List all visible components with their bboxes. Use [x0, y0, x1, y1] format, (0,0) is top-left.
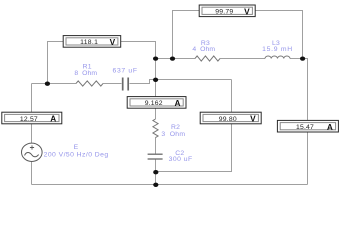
node 2 junction dot (C1 output)	[153, 78, 158, 82]
wire middle branch top to 9.162A meter	[155, 59, 157, 97]
svg-text:12.57: 12.57	[20, 116, 38, 123]
voltmeter 99.80 V	[200, 112, 261, 124]
wire 99.79V meter right lead	[255, 11, 303, 59]
wire C2 to bottom rail	[155, 159, 157, 185]
node top-left junction dot (118V right lead)	[153, 56, 158, 60]
svg-text:8 Ohm: 8 Ohm	[74, 70, 97, 77]
node right junction dot (after L3)	[300, 56, 305, 60]
svg-text:15.9 mH: 15.9 mH	[262, 46, 292, 53]
svg-text:V: V	[244, 7, 250, 17]
wire 118.1V meter left lead	[48, 42, 64, 84]
voltmeter 99.79 V	[199, 5, 255, 17]
voltmeter 118.1 V	[63, 36, 120, 48]
wire node A horizontal to R1	[32, 83, 77, 85]
inductor L3	[262, 40, 292, 59]
ammeter 9.162 A	[127, 97, 186, 109]
ammeter 12.57 A	[2, 112, 62, 124]
wire L3 to right node	[290, 58, 303, 60]
capacitor C1	[113, 67, 138, 90]
wire R2 to C2	[155, 138, 157, 154]
svg-text:4 Ohm: 4 Ohm	[192, 46, 215, 53]
svg-text:R2: R2	[171, 124, 180, 131]
wire C1 jog up to node 2	[130, 80, 232, 84]
svg-text:99.80: 99.80	[219, 116, 237, 123]
wire right node jog down to ammeter branch	[303, 59, 308, 121]
svg-text:A: A	[175, 98, 181, 108]
wire left branch down to 12.57A meter	[31, 84, 33, 113]
wire 99.79V meter left lead	[173, 11, 200, 59]
wire source to bottom rail	[31, 162, 33, 185]
svg-text:637 uF: 637 uF	[113, 67, 138, 74]
AC source E	[22, 143, 109, 161]
wire right branch up from bottom rail to 15.47A meter	[307, 132, 309, 185]
svg-text:V: V	[110, 37, 116, 47]
resistor R2	[153, 119, 185, 138]
junction dot bottom rail	[153, 183, 158, 187]
svg-text:3 Ohm: 3 Ohm	[161, 131, 185, 138]
wire 9.162A meter to R2	[155, 109, 157, 120]
wire bottom rail	[32, 184, 308, 186]
svg-text:V: V	[250, 114, 256, 124]
svg-text:9.162: 9.162	[145, 100, 163, 107]
wire R1 to C1	[103, 83, 122, 85]
node top junction dot (99.79V left lead)	[170, 56, 175, 60]
svg-text:E: E	[74, 144, 79, 151]
wire top node to R3	[156, 58, 196, 60]
wire R3 to L3	[220, 58, 265, 60]
resistor R3	[192, 40, 220, 61]
svg-text:A: A	[327, 122, 333, 132]
node A junction dot	[45, 82, 50, 86]
ammeter 15.47 A	[277, 120, 338, 132]
svg-text:15.47: 15.47	[296, 124, 314, 131]
resistor R1	[74, 64, 103, 87]
capacitor C2	[148, 150, 193, 163]
wire 118.1V meter right lead	[121, 42, 156, 59]
wire 12.57A meter to source	[31, 124, 33, 144]
svg-text:200 V/50 Hz/0 Deg: 200 V/50 Hz/0 Deg	[44, 151, 109, 158]
junction dot C2 return	[153, 170, 158, 174]
wire 99.80V meter bottom return	[156, 124, 232, 172]
wire 99.80V meter top lead	[231, 80, 233, 113]
svg-text:300 uF: 300 uF	[169, 156, 193, 163]
svg-text:118.1: 118.1	[80, 39, 98, 46]
svg-text:A: A	[50, 114, 56, 124]
svg-text:99.79: 99.79	[215, 9, 233, 16]
